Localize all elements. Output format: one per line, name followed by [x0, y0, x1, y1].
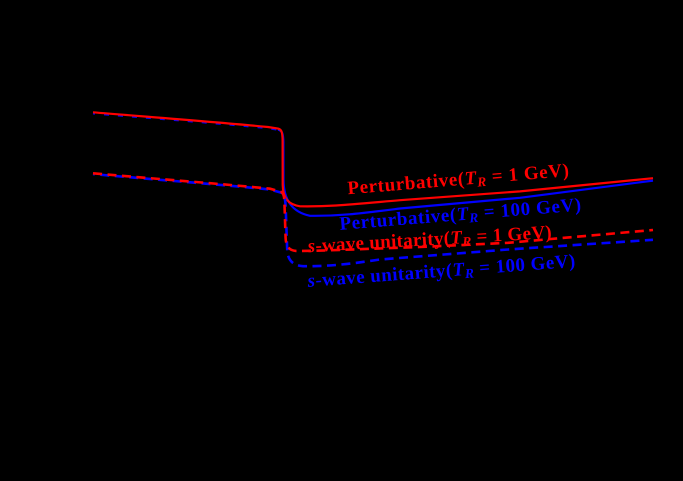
- curve: red solid Perturbative TR=1 GeV: [93, 112, 653, 206]
- curve: blue solid Perturbative TR=100 GeV (pre-drop, peeks under red): [93, 114, 278, 130]
- curve: blue dashed s-wave unitarity TR=100 GeV: [93, 174, 653, 266]
- curve: red dashed s-wave unitarity TR=1 GeV: [93, 173, 653, 251]
- curve: blue solid Perturbative TR=100 GeV: [278, 130, 653, 216]
